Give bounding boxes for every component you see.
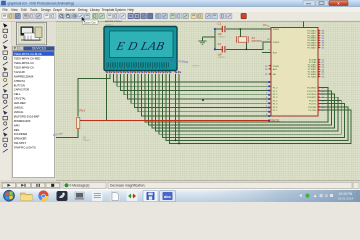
svg-text:<TEXT>: <TEXT> bbox=[192, 65, 201, 68]
svg-text:graphical lcd - ISIS Professio: graphical lcd - ISIS Professional (Anima… bbox=[8, 2, 74, 6]
svg-text:MINRES100K: MINRES100K bbox=[14, 119, 31, 123]
svg-text:P3.0/RXD: P3.0/RXD bbox=[307, 88, 317, 90]
svg-text:P1.2: P1.2 bbox=[273, 94, 278, 96]
svg-text:BUTTON: BUTTON bbox=[14, 83, 25, 87]
svg-text:P1.6: P1.6 bbox=[273, 107, 278, 109]
svg-text:Help: Help bbox=[128, 8, 135, 12]
svg-text:0 Message(s): 0 Message(s) bbox=[70, 184, 90, 188]
svg-text:10:45 PM: 10:45 PM bbox=[339, 192, 353, 196]
svg-text:Graph: Graph bbox=[53, 8, 62, 12]
svg-text:ALE: ALE bbox=[273, 68, 278, 71]
svg-text:L: L bbox=[20, 47, 22, 51]
svg-text:MILFORD-2X16-BKP: MILFORD-2X16-BKP bbox=[14, 114, 40, 118]
svg-text:Template: Template bbox=[102, 8, 115, 12]
svg-text:LM016L: LM016L bbox=[14, 106, 24, 110]
svg-text:Library: Library bbox=[90, 8, 100, 12]
svg-text:18: 18 bbox=[161, 66, 165, 70]
svg-text:P3.7/RD: P3.7/RD bbox=[308, 110, 316, 112]
svg-text:AMPIRE 128X64: AMPIRE 128X64 bbox=[105, 20, 122, 23]
svg-text:P3.2/INT0: P3.2/INT0 bbox=[307, 94, 317, 96]
svg-text:File: File bbox=[3, 8, 8, 12]
svg-text:RES: RES bbox=[14, 128, 20, 132]
svg-text:PSEN: PSEN bbox=[273, 66, 279, 68]
svg-text:CELL: CELL bbox=[14, 92, 21, 96]
svg-text:<TEXT>: <TEXT> bbox=[105, 24, 114, 27]
svg-text:abc: abc bbox=[164, 194, 172, 199]
svg-text:P3.3/INT1: P3.3/INT1 bbox=[307, 97, 317, 99]
svg-text:AT89C51: AT89C51 bbox=[268, 118, 280, 122]
svg-text:P1.4: P1.4 bbox=[273, 100, 278, 102]
svg-text:XTAL2: XTAL2 bbox=[273, 41, 280, 44]
svg-text:P1.5: P1.5 bbox=[273, 104, 278, 106]
svg-text:View: View bbox=[11, 8, 19, 12]
svg-text:<TEXT>: <TEXT> bbox=[83, 139, 92, 142]
svg-text:P3.1/TXD: P3.1/TXD bbox=[307, 91, 317, 93]
svg-text:CRYSTAL: CRYSTAL bbox=[14, 97, 27, 101]
svg-text:P1.3: P1.3 bbox=[273, 97, 278, 99]
svg-text:P0.7/AD7: P0.7/AD7 bbox=[307, 46, 317, 49]
svg-text:C2: C2 bbox=[218, 42, 222, 46]
svg-text:X1: X1 bbox=[252, 36, 256, 40]
svg-text:1nF: 1nF bbox=[218, 33, 223, 36]
svg-text:CAPACITOR: CAPACITOR bbox=[14, 88, 29, 92]
svg-text:Tools: Tools bbox=[30, 8, 38, 12]
svg-text:P3.6/WR: P3.6/WR bbox=[308, 107, 317, 109]
svg-text:LED-RED: LED-RED bbox=[14, 101, 26, 105]
svg-text:SOUNDER: SOUNDER bbox=[14, 132, 27, 136]
svg-text:<TEXT>: <TEXT> bbox=[218, 56, 227, 59]
svg-text:Decrease magnification.: Decrease magnification. bbox=[110, 184, 145, 188]
svg-text:Zoom Out: Zoom Out bbox=[84, 20, 96, 24]
svg-text:7SEG-MPX4-CA-BLUE: 7SEG-MPX4-CA-BLUE bbox=[14, 52, 42, 56]
svg-text:XTAL1: XTAL1 bbox=[273, 28, 280, 31]
svg-text:P3.5/T1: P3.5/T1 bbox=[309, 104, 317, 106]
svg-text:NPN: NPN bbox=[14, 123, 20, 127]
svg-text:74LS138: 74LS138 bbox=[14, 70, 25, 74]
svg-text:SPEAKER: SPEAKER bbox=[14, 137, 27, 141]
svg-text:System: System bbox=[115, 8, 126, 12]
svg-text:16-01-2014: 16-01-2014 bbox=[338, 196, 354, 200]
svg-text:P2.7/A15: P2.7/A15 bbox=[308, 75, 317, 78]
svg-text:P1.1: P1.1 bbox=[273, 91, 278, 93]
svg-text:7SEG-MPX4-CA-RED: 7SEG-MPX4-CA-RED bbox=[14, 57, 41, 61]
svg-text:1nF: 1nF bbox=[218, 53, 223, 56]
svg-text:7SEG-MPX6-CA: 7SEG-MPX6-CA bbox=[14, 65, 34, 69]
svg-text:LM041L: LM041L bbox=[14, 110, 24, 114]
svg-text:TRAFFIC-LIGHTS: TRAFFIC-LIGHTS bbox=[14, 146, 36, 150]
svg-text:CRYSTAL: CRYSTAL bbox=[252, 40, 263, 43]
svg-text:Source: Source bbox=[65, 8, 75, 12]
svg-text:E D LAB: E D LAB bbox=[114, 39, 166, 53]
svg-text:<TEXT>: <TEXT> bbox=[218, 36, 227, 39]
svg-text:SW-SPST: SW-SPST bbox=[14, 141, 27, 145]
svg-text:Design: Design bbox=[41, 8, 51, 12]
svg-text:RV1: RV1 bbox=[80, 109, 86, 113]
svg-text:Debug: Debug bbox=[78, 8, 88, 12]
svg-text:P1.7: P1.7 bbox=[273, 110, 278, 112]
svg-text:AT89C51: AT89C51 bbox=[14, 79, 26, 83]
svg-text:P1.0: P1.0 bbox=[273, 88, 278, 90]
svg-text:7SEG-MPX4-CC: 7SEG-MPX4-CC bbox=[14, 61, 34, 65]
svg-text:C1: C1 bbox=[218, 22, 222, 26]
svg-text:P3.4/T0: P3.4/T0 bbox=[309, 100, 317, 102]
svg-text:DEVICES: DEVICES bbox=[32, 47, 46, 51]
svg-text:Edit: Edit bbox=[21, 8, 27, 12]
svg-text:AMPIRE128X64: AMPIRE128X64 bbox=[14, 74, 34, 78]
svg-text:RST: RST bbox=[273, 53, 278, 55]
